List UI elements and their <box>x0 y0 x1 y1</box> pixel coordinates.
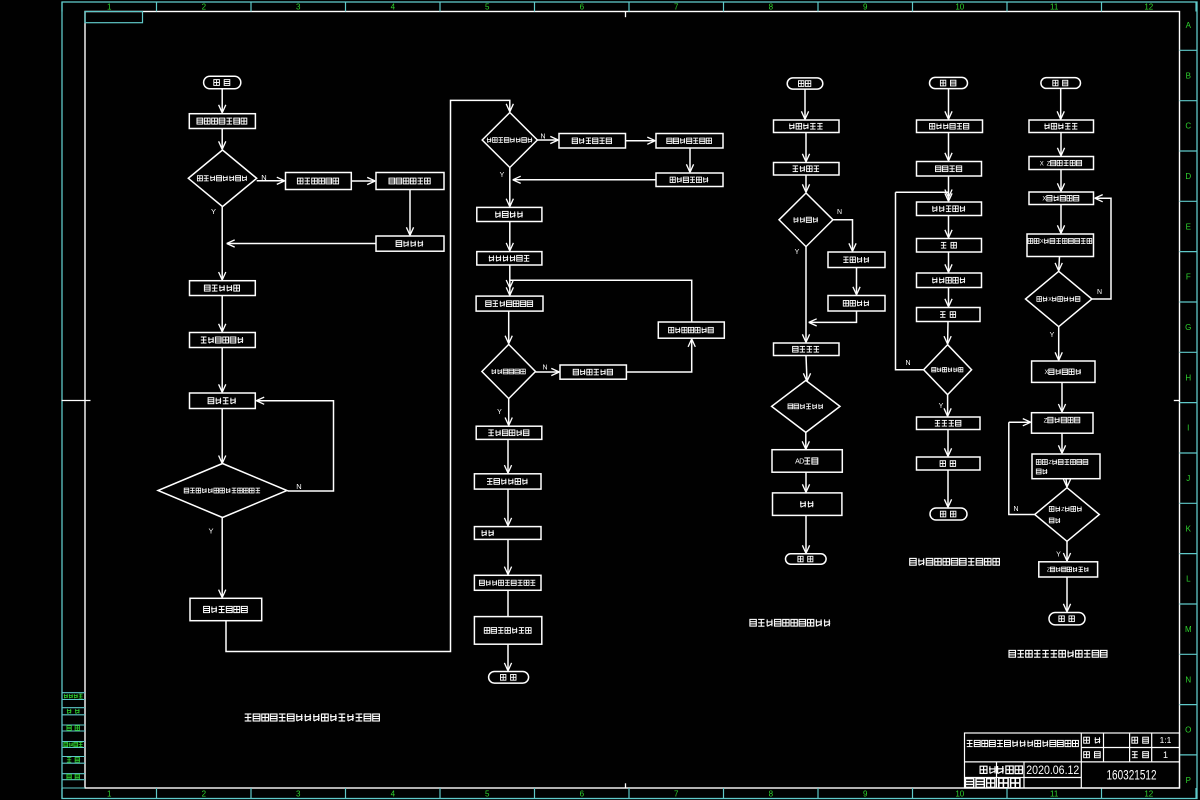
wire f4 N loop <box>896 192 924 369</box>
flowchart3 box attenuation factor <box>828 296 885 312</box>
svg-text:J: J <box>1186 474 1190 483</box>
bottom ruler band ticks and numbers 1-12 <box>62 788 1196 799</box>
svg-text:10: 10 <box>955 790 964 799</box>
wire to reconnect box <box>351 177 375 184</box>
wire to z diamond <box>1063 479 1070 487</box>
wire f2 diamond1 Y to open light box <box>506 168 513 207</box>
flowchart3 box photoelectric detection <box>774 343 840 356</box>
svg-text:3: 3 <box>296 790 301 799</box>
flowchart3 box system init <box>774 120 840 133</box>
flowchart4 box delay 2 <box>917 308 981 322</box>
svg-text:N: N <box>905 360 910 367</box>
svg-text:N: N <box>837 209 842 216</box>
flowchart4 box output low level <box>917 273 982 288</box>
label Y <box>211 207 216 216</box>
flowchart3 box output <box>773 493 842 516</box>
svg-text:Y: Y <box>1050 332 1055 339</box>
svg-text:1:1: 1:1 <box>1160 735 1172 745</box>
wire save-scene to high-level box with loop merge <box>945 176 952 201</box>
label N <box>261 173 266 182</box>
flowchart4 box output high level <box>917 202 982 216</box>
wire to attenuation box <box>853 268 860 295</box>
wire to repurchase box <box>626 137 656 144</box>
flowchart2 box move to initial position <box>474 617 541 645</box>
svg-text:7: 7 <box>674 2 679 11</box>
svg-text:P: P <box>1186 776 1191 785</box>
wire to analyse box <box>504 439 511 473</box>
wire to return box <box>944 430 951 457</box>
label Y big diamond <box>208 527 213 536</box>
flowchart1 box set test position <box>190 333 256 348</box>
svg-text:2: 2 <box>202 790 207 799</box>
svg-text:6: 6 <box>580 790 585 799</box>
wire diamond1 Y down to install box <box>219 207 226 280</box>
wire diamond1 N to check box <box>257 177 285 184</box>
flowchart2 box repurchase parts <box>656 134 723 149</box>
flowchart5 box system init <box>1029 120 1094 133</box>
wire to x diamond <box>1055 257 1062 271</box>
flowchart1 box reconnect device <box>376 173 444 190</box>
flowchart2 box find wiring cause <box>560 365 626 379</box>
wire to signal diamond <box>505 311 512 344</box>
svg-text:4: 4 <box>391 790 396 799</box>
svg-text:X: X <box>1045 369 1049 376</box>
caption flowchart1 <box>245 714 380 721</box>
label Y f2d2 <box>497 409 502 416</box>
flowchart1 box install mirror <box>190 281 256 296</box>
svg-text:B: B <box>1186 71 1191 80</box>
wire f5 X Y to x stop box <box>1055 327 1062 361</box>
caption flowchart5 <box>1009 650 1107 657</box>
right ruler band ticks and letters A-P <box>1180 21 1198 785</box>
svg-text:A: A <box>1186 21 1192 30</box>
wire to delay1 box <box>945 216 952 238</box>
svg-text:5: 5 <box>485 2 490 11</box>
wire to x motor box <box>1057 170 1064 192</box>
svg-text:1: 1 <box>107 2 112 11</box>
wire to x grating box <box>1057 205 1064 234</box>
wire f2d2 Y to show result box <box>505 399 512 426</box>
label N f5 X <box>1097 289 1102 296</box>
wire find-wiring to replace-wiring box <box>626 339 695 372</box>
svg-text:1: 1 <box>1163 750 1168 760</box>
wire start to box1 <box>219 89 226 113</box>
title block signature rows <box>965 765 1079 788</box>
svg-text:K: K <box>1186 524 1192 533</box>
flowchart5 diamond Z position reached <box>1035 488 1100 542</box>
wire to delay2 box <box>945 288 952 307</box>
title block grid <box>965 733 1180 788</box>
flowchart3 box baseline calibration <box>774 163 840 176</box>
flowchart3 start oval <box>787 78 823 89</box>
flowchart5 box Z motor run <box>1032 413 1094 434</box>
svg-text:11: 11 <box>1050 2 1059 11</box>
flowchart2 box show test result <box>476 426 542 439</box>
svg-text:11: 11 <box>1050 790 1059 799</box>
wire to end oval f4 <box>944 470 951 507</box>
svg-text:Y: Y <box>497 409 502 416</box>
wire motor box to big diamond <box>219 409 226 464</box>
svg-text:I: I <box>1187 424 1189 433</box>
flowchart5 box Z motor stop <box>1039 562 1098 577</box>
wire box1 to diamond1 <box>219 129 226 150</box>
flowchart1 box init display <box>189 114 255 129</box>
svg-text:X: X <box>1042 196 1046 203</box>
wire to z motor box <box>1058 382 1065 412</box>
loop wire horizontal into main line f4 <box>896 191 949 193</box>
wire f5 Z Y to z stop box <box>1063 541 1070 561</box>
wire power box back to main line <box>227 240 376 247</box>
svg-text:160321512: 160321512 <box>1107 768 1157 783</box>
wire f4 Y to restore box <box>944 395 951 417</box>
wire f2d2 N to find-wiring box <box>536 368 560 375</box>
flowchart5 box detect X grating position <box>1027 234 1094 257</box>
svg-text:Y: Y <box>500 172 505 179</box>
flowchart2 box replace rewire <box>658 322 724 338</box>
flowchart1 diamond config ok <box>188 150 256 207</box>
flowchart2 box find hardware issue <box>559 134 626 149</box>
svg-text:N: N <box>296 482 301 491</box>
wire z motor to z grating box <box>1058 433 1065 453</box>
flowchart1 big diamond grating position reached <box>158 464 287 518</box>
svg-text:G: G <box>1185 323 1191 332</box>
flowchart3 diamond normal <box>779 193 833 247</box>
caption flowchart3 <box>750 619 830 626</box>
wire to save-scene box <box>945 133 952 161</box>
svg-text:L: L <box>1186 575 1191 584</box>
top ruler band ticks and numbers 1-12 <box>62 2 1196 12</box>
svg-text:O: O <box>1185 726 1191 735</box>
svg-text:X: X <box>1040 161 1044 167</box>
label N f3 <box>837 209 842 216</box>
wire to output box <box>802 472 809 492</box>
wire to ok diamond <box>802 175 809 192</box>
wire f3 Y down to photo detect box <box>802 247 809 343</box>
wire to AD box <box>802 432 809 449</box>
wire to end oval f5 <box>1063 577 1070 612</box>
wire N loop back to motor box <box>256 397 333 491</box>
feedback wire from replace-wiring box <box>510 280 692 322</box>
flowchart1 box power on <box>376 236 444 251</box>
top-left cyan centering box <box>85 12 143 23</box>
flowchart5 end oval <box>1049 613 1085 625</box>
svg-text:Z: Z <box>1048 460 1052 466</box>
flowchart2 box adjust light current <box>477 252 542 265</box>
flowchart2 box replace parts <box>656 173 723 187</box>
flowchart5 box X motor run <box>1029 192 1094 205</box>
svg-text:Y: Y <box>211 207 216 216</box>
flowchart4 box return <box>917 457 981 470</box>
svg-text:X: X <box>1048 297 1052 303</box>
wire diamond Y to stop box <box>219 518 226 598</box>
wire to end oval f2 <box>504 644 511 671</box>
flowchart4 diamond pulse count enough <box>924 345 972 395</box>
flowchart5 box X motor stop <box>1032 361 1095 382</box>
svg-text:C: C <box>1185 122 1191 131</box>
svg-text:10: 10 <box>955 2 964 11</box>
wire adjust to detector box with feedback merge <box>506 265 513 295</box>
svg-text:M: M <box>1185 625 1192 634</box>
svg-text:5: 5 <box>485 790 490 799</box>
flowchart2 box analyse feedback data <box>474 474 541 489</box>
svg-text:D: D <box>799 459 804 466</box>
svg-text:Z: Z <box>1044 417 1048 424</box>
wire f5 X N loop <box>1092 195 1111 299</box>
svg-text:F: F <box>1186 273 1191 282</box>
svg-text:Y: Y <box>208 527 213 536</box>
z loop merge wire into z motor box <box>1009 419 1031 426</box>
flowchart2 box motor stripe wheel device <box>474 575 541 590</box>
svg-text:N: N <box>1097 289 1102 296</box>
title block text: drawing title <box>967 740 1079 746</box>
svg-text:9: 9 <box>863 2 868 11</box>
svg-text:Y: Y <box>1056 552 1061 559</box>
wire reconnect down to power box <box>406 190 413 236</box>
caption flowchart4 <box>910 558 1000 565</box>
flowchart4 box save scene <box>917 162 982 177</box>
flowchart2 box open light source <box>477 207 542 221</box>
label Y f4 <box>939 403 944 410</box>
flowchart5 diamond X position reached <box>1026 271 1092 326</box>
wire to low-level box <box>945 252 952 272</box>
centering mark right <box>1174 400 1180 402</box>
svg-text:4: 4 <box>391 2 396 11</box>
flowchart2 box photodetector check <box>476 296 543 311</box>
svg-text:1: 1 <box>107 790 112 799</box>
flowchart5 start oval <box>1041 78 1081 89</box>
student number 160321512 <box>1107 768 1157 783</box>
wire replace box back to main line <box>513 176 656 183</box>
flowchart3 end oval <box>786 554 827 564</box>
svg-text:E: E <box>1186 222 1191 231</box>
svg-text:N: N <box>1013 506 1018 513</box>
flowchart4 start oval <box>930 77 968 88</box>
flowchart1 box motor stop <box>190 598 262 620</box>
svg-text:8: 8 <box>769 2 774 11</box>
centering mark top <box>625 12 627 18</box>
wire to position box <box>219 296 226 332</box>
flowchart4 end oval <box>930 508 967 520</box>
wire f3 N to gain box <box>833 220 856 252</box>
flowchart2 diamond system hardware ok <box>482 113 537 168</box>
svg-text:X: X <box>1040 239 1044 245</box>
flowchart5 box XZ parameter setting <box>1029 157 1094 170</box>
svg-text:6: 6 <box>580 2 585 11</box>
svg-text:H: H <box>1185 373 1191 382</box>
flowchart4 box restore scene <box>917 417 981 430</box>
flowchart4 box pulse count <box>917 120 983 133</box>
svg-text:12: 12 <box>1144 2 1153 11</box>
label N f2d2 <box>542 365 547 372</box>
left binding strip boxes with green labels <box>62 693 85 788</box>
wire to motor stripe box <box>504 539 511 574</box>
svg-text:Z: Z <box>1047 567 1050 573</box>
centering mark bottom <box>625 783 627 788</box>
flowchart2 box conclusion <box>474 527 541 540</box>
svg-text:Y: Y <box>939 403 944 410</box>
wire to conclusion box <box>504 489 511 526</box>
wire to adjust current box <box>506 222 513 251</box>
svg-text:Z: Z <box>1061 507 1065 513</box>
label N big diamond <box>296 482 301 491</box>
label N f5 Z <box>1013 506 1018 513</box>
flowchart2 end oval <box>489 672 529 684</box>
connector wire from flowchart1 to flowchart2 <box>226 100 513 651</box>
wire down to replace box <box>686 148 693 172</box>
wire to signal diamond f3 <box>803 356 810 382</box>
flowchart5 box detect Z grating position <box>1032 454 1100 479</box>
wire f5 Z N loop <box>1009 422 1035 514</box>
svg-text:7: 7 <box>674 790 679 799</box>
flowchart3 box amplification factor <box>828 252 885 268</box>
svg-text:N: N <box>542 365 547 372</box>
wire to pulse diamond <box>944 322 951 345</box>
wire to xz param box <box>1057 133 1064 156</box>
wire f2 diamond1 N <box>537 136 558 143</box>
wire f3 start to init <box>801 89 808 119</box>
flowchart3 diamond signal present <box>772 380 840 432</box>
wire to calib box <box>802 133 809 162</box>
wire f5 start <box>1057 88 1064 119</box>
svg-text:3: 3 <box>296 2 301 11</box>
svg-text:12: 12 <box>1144 790 1153 799</box>
svg-text:8: 8 <box>769 790 774 799</box>
title block cells: material scale labels <box>1084 735 1172 760</box>
flowchart4 box delay 1 <box>917 239 982 253</box>
wire to motor box <box>219 348 226 393</box>
label N f2d1 <box>540 134 545 141</box>
label N f4 <box>905 360 910 367</box>
label Y f3 <box>795 249 800 256</box>
flowchart3 box AD conversion <box>772 450 842 473</box>
svg-text:D: D <box>1185 172 1191 181</box>
label Y f5 X <box>1050 332 1055 339</box>
flowchart2 diamond signal output <box>482 344 536 398</box>
svg-text:Y: Y <box>795 249 800 256</box>
svg-text:9: 9 <box>863 790 868 799</box>
wire to return-position box <box>507 590 509 616</box>
svg-text:Z: Z <box>1047 161 1051 167</box>
centering mark left <box>62 400 91 402</box>
svg-text:N: N <box>1185 675 1191 684</box>
wire attenuation back to main line <box>809 311 857 326</box>
svg-text:2: 2 <box>202 2 207 11</box>
wire f4 start <box>945 89 952 120</box>
flowchart1 start oval <box>204 76 241 89</box>
flowchart1 box check connection <box>286 173 352 190</box>
label Y f5 Z <box>1056 552 1061 559</box>
wire to end oval f3 <box>802 515 809 553</box>
flowchart1 box motor run <box>190 393 256 409</box>
svg-text:2020.06.12: 2020.06.12 <box>1026 765 1079 777</box>
label Y f2d1 <box>500 172 505 179</box>
